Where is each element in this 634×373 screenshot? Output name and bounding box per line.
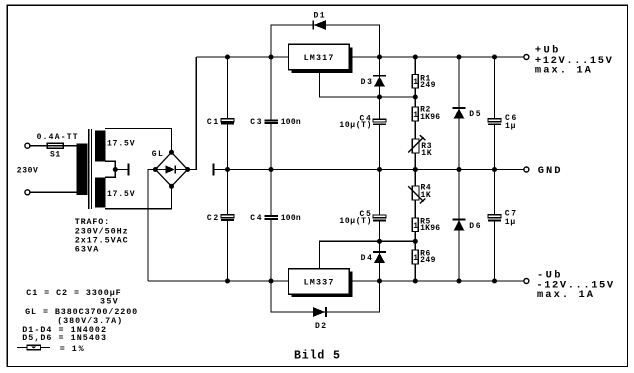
capacitor C4 100n	[270, 170, 272, 217]
svg-text:D3: D3	[361, 78, 372, 87]
svg-text:1K96: 1K96	[420, 224, 440, 233]
wire LM337 adj	[320, 241, 416, 268]
wire bridge plus up	[188, 57, 197, 170]
junction D4 bottom	[377, 279, 382, 284]
transformer secondary winding upper	[95, 130, 106, 161]
svg-text:C3: C3	[250, 118, 261, 127]
svg-text:17.5V: 17.5V	[107, 190, 135, 199]
svg-text:249: 249	[420, 81, 435, 90]
diode D3	[379, 57, 381, 97]
wire LM317 adj	[320, 70, 416, 97]
junction R1 top	[413, 55, 418, 60]
svg-text:249: 249	[420, 256, 435, 265]
svg-text:1µ: 1µ	[505, 218, 516, 227]
wire mains top	[30, 145, 77, 147]
svg-text:100n: 100n	[281, 118, 301, 127]
svg-text:C1: C1	[207, 118, 218, 127]
legend 1% resistor symbol	[17, 347, 50, 349]
junction C7 bottom	[492, 279, 497, 284]
svg-text:D5: D5	[469, 110, 480, 119]
terminal GND	[524, 167, 529, 172]
junction R6 bottom	[413, 279, 418, 284]
svg-text:D5,D6 = 1N5403: D5,D6 = 1N5403	[22, 333, 106, 343]
svg-text:TRAFO:: TRAFO:	[75, 217, 110, 227]
junction C4 bottom	[269, 279, 274, 284]
svg-text:1: 1	[413, 222, 418, 231]
tap end bar	[127, 164, 129, 176]
trimmer R3 1K	[412, 139, 419, 153]
junction D5 bottom	[457, 167, 462, 172]
junction C3 top	[269, 55, 274, 60]
diode D2	[271, 281, 380, 312]
regulator U2 LM337	[292, 272, 353, 298]
svg-text:Bild 5: Bild 5	[294, 349, 340, 362]
wire bridge minus down	[148, 170, 155, 282]
svg-text:1%: 1%	[72, 344, 85, 354]
wire minus rail right	[349, 280, 524, 282]
svg-text:100n: 100n	[281, 214, 301, 223]
svg-text:D2: D2	[315, 322, 326, 331]
svg-text:1K96: 1K96	[420, 113, 440, 122]
svg-text:17.5V: 17.5V	[107, 140, 135, 149]
resistor R6 249	[412, 250, 418, 264]
wire secondary bottom lead	[105, 186, 172, 209]
junction C5 bottom adj2	[377, 239, 382, 244]
terminal mains L	[25, 143, 30, 148]
junction C1 top	[225, 55, 230, 60]
svg-text:S1: S1	[50, 150, 60, 159]
wire mains bottom	[30, 191, 77, 193]
junction C6 bottom	[492, 167, 497, 172]
svg-text:230V: 230V	[17, 166, 38, 175]
svg-text:1: 1	[413, 254, 418, 263]
svg-text:=: =	[60, 344, 65, 354]
diode D1	[271, 25, 380, 57]
terminal +Ub	[524, 55, 529, 60]
junction C4t bottom	[377, 167, 382, 172]
regulator U1 LM317	[292, 47, 353, 73]
junction D3 bottom	[377, 95, 382, 100]
capacitor C2	[227, 170, 229, 216]
wire center tap steps	[105, 161, 115, 177]
gnd rail end bar	[212, 164, 214, 176]
capacitor C6 1u	[494, 57, 496, 119]
svg-text:10µ(T): 10µ(T)	[339, 217, 371, 226]
capacitor C1	[227, 57, 229, 119]
junction center tap	[113, 167, 118, 172]
svg-text:D1: D1	[314, 11, 325, 20]
fuse S1	[47, 143, 63, 148]
terminal -Ub	[524, 279, 529, 284]
terminal mains N	[25, 190, 30, 195]
junction D3 top	[377, 55, 382, 60]
junction C3 bottom	[269, 167, 274, 172]
svg-text:1: 1	[413, 78, 418, 87]
diode D5	[458, 57, 460, 170]
svg-text:GND: GND	[538, 165, 561, 177]
junction R1 bottom adj	[413, 95, 418, 100]
capacitor C5 10u tantalum	[379, 170, 381, 216]
junction C2 bottom	[225, 279, 230, 284]
resistor R5 1K96	[412, 218, 418, 232]
svg-text:C7: C7	[505, 209, 516, 218]
wire through fuse	[47, 145, 63, 147]
diode D4	[379, 241, 381, 281]
resistor R1 249	[414, 57, 416, 75]
svg-text:1K: 1K	[421, 149, 431, 158]
svg-text:LM337: LM337	[304, 278, 334, 288]
junction D5 top	[457, 55, 462, 60]
bridge rectifier GL	[155, 152, 187, 186]
svg-text:C4: C4	[250, 214, 261, 223]
capacitor C3 100n	[270, 57, 272, 120]
capacitor C7 1u	[494, 170, 496, 216]
diode D6	[458, 170, 460, 282]
svg-text:D6: D6	[469, 222, 480, 231]
svg-text:1µ: 1µ	[505, 122, 516, 131]
wire plus rail left	[196, 56, 288, 58]
svg-text:LM317: LM317	[304, 53, 334, 63]
svg-text:1K: 1K	[421, 191, 431, 200]
junction C6 top	[492, 55, 497, 60]
wire secondary top lead	[105, 129, 172, 154]
capacitor C4 10u tantalum	[379, 97, 381, 119]
transformer secondary winding lower	[95, 177, 106, 207]
wire minus rail left	[148, 280, 289, 282]
trimmer R4 1K	[414, 170, 416, 187]
svg-text:35V: 35V	[100, 297, 119, 307]
transformer core	[88, 129, 90, 209]
resistor R2 1K96	[412, 107, 418, 121]
junction R5 bottom adj2	[413, 239, 418, 244]
transformer primary winding	[77, 143, 88, 195]
wire plus rail right	[349, 56, 524, 58]
junction R3 bottom	[413, 167, 418, 172]
svg-text:1: 1	[413, 111, 418, 120]
svg-text:D4: D4	[361, 254, 372, 263]
svg-text:63VA: 63VA	[75, 245, 100, 255]
svg-text:GL: GL	[152, 150, 163, 159]
svg-text:10µ(T): 10µ(T)	[339, 121, 371, 130]
junction C1 bottom	[225, 167, 230, 172]
junction D6 bottom	[457, 279, 462, 284]
svg-text:C2: C2	[207, 214, 218, 223]
wire center tap	[115, 169, 128, 171]
wire gnd rail	[214, 169, 524, 171]
